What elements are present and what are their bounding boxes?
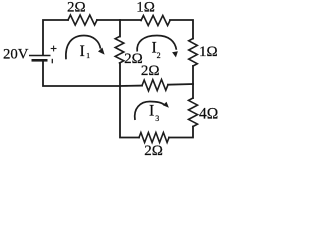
svg-text:20V: 20V xyxy=(3,46,29,62)
resistor R1 2ohm top-left xyxy=(68,15,97,25)
battery plus sign xyxy=(51,48,57,50)
resistor R4 2ohm middle horizontal xyxy=(142,79,168,91)
svg-text:2Ω: 2Ω xyxy=(67,0,86,16)
svg-text:2: 2 xyxy=(157,51,161,60)
resistor R7 2ohm bottom xyxy=(139,133,169,143)
battery positive plate xyxy=(29,55,51,57)
resistor R2 1ohm top xyxy=(141,16,170,26)
wire middle-branch top segment xyxy=(119,20,121,37)
battery minus tick xyxy=(51,59,53,64)
wire right-middle segment xyxy=(192,66,194,98)
svg-text:2Ω: 2Ω xyxy=(144,143,163,157)
svg-text:2Ω: 2Ω xyxy=(141,63,160,79)
svg-text:3: 3 xyxy=(155,114,159,123)
mesh current arrow I2 xyxy=(137,36,178,58)
battery negative plate xyxy=(32,59,48,62)
svg-text:4Ω: 4Ω xyxy=(199,105,218,122)
wire top-right segment xyxy=(170,20,193,39)
wire mid-horizontal left segment xyxy=(120,85,142,87)
wire mesh1 bottom xyxy=(43,61,120,86)
resistor R6 4ohm right xyxy=(189,98,198,127)
svg-text:I: I xyxy=(149,103,154,120)
wire mid-horizontal right segment xyxy=(168,83,193,86)
resistor R5 1ohm right xyxy=(189,39,198,67)
wire top-left segment xyxy=(43,20,68,55)
svg-text:1Ω: 1Ω xyxy=(136,0,155,16)
wire right-bottom segment xyxy=(169,127,193,138)
resistor R3 2ohm middle vertical xyxy=(115,37,124,64)
svg-text:I: I xyxy=(80,43,85,60)
wire bottom-left segment xyxy=(120,63,139,138)
wire top-middle segment xyxy=(97,19,141,21)
battery V1 20V xyxy=(29,46,57,64)
mesh current arrow I3 xyxy=(135,102,169,121)
svg-text:1: 1 xyxy=(86,51,90,60)
svg-text:1Ω: 1Ω xyxy=(199,44,218,60)
mesh current arrow I1 xyxy=(66,36,105,60)
